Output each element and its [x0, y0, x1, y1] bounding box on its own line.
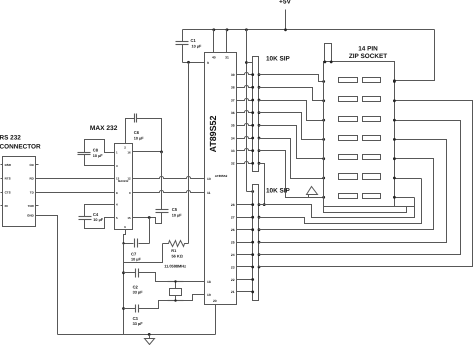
capacitor C8 loop wires pins 1-3: [85, 140, 115, 153]
svg-text:C2: C2: [133, 284, 139, 289]
svg-text:28: 28: [231, 203, 235, 207]
svg-text:25: 25: [231, 240, 235, 244]
svg-text:+5V: +5V: [279, 0, 292, 6]
svg-text:35: 35: [231, 124, 235, 128]
capacitor C5 plates: [156, 209, 169, 211]
wire C3 to crystal: [139, 301, 168, 309]
wire chip pin22 P2 to SIP2: [237, 279, 253, 281]
wire C2 to crystal: [139, 273, 168, 282]
svg-text:22: 22: [231, 278, 235, 282]
svg-text:23: 23: [231, 265, 235, 269]
svg-text:10 µF: 10 µF: [131, 258, 141, 262]
sip RN2 body: [253, 185, 259, 301]
svg-text:ZIP SOCKET: ZIP SOCKET: [349, 53, 387, 60]
svg-text:14 PIN: 14 PIN: [358, 45, 378, 52]
svg-text:10K SIP: 10K SIP: [266, 56, 291, 63]
svg-text:10 µF: 10 µF: [192, 44, 202, 48]
ic U2 MAX232 body: [115, 144, 133, 230]
svg-text:C5: C5: [172, 207, 178, 212]
wire chip pin35 P0 to SIP1: [237, 123, 253, 125]
wire SIP1 to ZIP left pin7 staircase: [259, 151, 324, 198]
svg-text:C8: C8: [93, 148, 99, 153]
wire SIP1 to ZIP left pin1 staircase: [259, 75, 324, 82]
wire pin28 step to nested line: [259, 198, 415, 218]
connector right pin stubs: [36, 164, 39, 166]
svg-text:11.0598MHz: 11.0598MHz: [164, 263, 186, 268]
node RST junction: [187, 61, 190, 64]
svg-text:26: 26: [231, 228, 235, 232]
svg-text:AT89S52: AT89S52: [208, 116, 218, 153]
node SIP2 common: [247, 191, 253, 193]
capacitor C1 plates: [176, 41, 189, 43]
node C7 left junction: [122, 242, 124, 244]
node arrow marker on pin7 wire: [308, 195, 310, 198]
wire RST vertical to R1: [188, 63, 190, 244]
zip socket lever tab: [325, 44, 332, 62]
svg-text:R1: R1: [171, 248, 177, 253]
wire chip pin21 P2 to SIP2: [237, 291, 253, 293]
svg-text:RS 232: RS 232: [0, 134, 21, 141]
wire ZIP bottom edge extension: [395, 206, 415, 208]
connector J1 RS232 body: [3, 157, 36, 227]
svg-text:33 pF: 33 pF: [133, 290, 144, 294]
wire chip pin36 P0 to SIP1: [237, 110, 253, 112]
svg-text:13: 13: [116, 177, 120, 181]
ground symbol: [148, 333, 151, 336]
wire chip pin25 P2 to SIP2: [237, 242, 253, 244]
ground rail bottom: [58, 334, 216, 336]
zip right pin1 dot: [393, 79, 396, 82]
svg-text:38: 38: [231, 86, 235, 90]
capacitor C7 plates: [134, 239, 136, 248]
svg-text:C1: C1: [191, 38, 197, 43]
wire chip pin24 P2 to SIP2: [237, 254, 253, 256]
node +5V supply stem: [285, 10, 287, 30]
svg-text:27: 27: [231, 216, 235, 220]
svg-text:24: 24: [231, 253, 235, 257]
wire chip pin38 P0 to SIP1: [237, 85, 253, 87]
wire SIP1 to ZIP left pin6 staircase: [259, 139, 324, 179]
svg-text:19: 19: [207, 293, 211, 297]
svg-text:CTS: CTS: [5, 191, 11, 195]
svg-text:DSR: DSR: [5, 163, 12, 167]
svg-text:37: 37: [231, 98, 235, 102]
sip RN1 body: [253, 57, 259, 172]
wire SIP1 to ZIP left pin5 staircase: [259, 126, 324, 159]
ic U1 AT89S52 body: [205, 53, 237, 305]
wire chip pin26 P2 to SIP2: [237, 229, 253, 231]
capacitor C8 plates: [78, 152, 91, 154]
svg-text:36: 36: [231, 111, 235, 115]
capacitor C6 plates: [134, 114, 136, 123]
svg-text:10 µF: 10 µF: [93, 154, 103, 158]
wire crystal to pin18: [184, 281, 205, 283]
svg-text:33: 33: [231, 149, 235, 153]
node C2 tap: [122, 271, 125, 274]
wire chip pin23 P2 to SIP2: [237, 266, 253, 268]
wire chip pin27 P2 to SIP2: [237, 217, 253, 219]
wire SIP1 to ZIP left pin2 staircase: [259, 88, 324, 101]
svg-text:CONNECTOR: CONNECTOR: [0, 144, 41, 151]
wire chip pin34 P0 to SIP1: [237, 136, 253, 138]
svg-text:RI: RI: [5, 204, 8, 208]
wire pin31 from rail: [226, 30, 228, 53]
wire chip pin32 P0 to SIP1: [237, 161, 253, 163]
wire ZIP right pin7 stub: [395, 197, 415, 199]
node GND junction C5/pin15: [148, 216, 151, 219]
svg-text:12: 12: [127, 177, 131, 181]
wire ZIP right pin6 stub: [395, 178, 422, 180]
svg-text:MAX 232: MAX 232: [90, 125, 118, 132]
svg-text:34: 34: [231, 136, 235, 140]
svg-text:9: 9: [207, 61, 209, 65]
capacitor C4 loop wires pins 4-5: [85, 205, 115, 217]
resistor R1 56K zigzag: [163, 241, 189, 247]
svg-text:AT89S52: AT89S52: [215, 174, 228, 178]
svg-text:16: 16: [127, 151, 131, 155]
wire rail to ZIP pin1 right: [395, 30, 435, 81]
wire MAX pin6 down to C7: [124, 230, 134, 244]
svg-text:C4: C4: [93, 212, 99, 217]
svg-text:C6: C6: [134, 130, 140, 135]
svg-text:21: 21: [231, 290, 235, 294]
svg-text:10 µF: 10 µF: [93, 218, 103, 222]
wire pin26 nested line to ZIP right pin5: [259, 159, 434, 230]
wire pin40 from rail: [213, 30, 215, 53]
capacitor C2 plates: [124, 272, 136, 274]
wire MAX232 to chip pin11 TXD: [133, 190, 205, 192]
zip socket X1 body: [324, 62, 395, 207]
wire ground vertical C2 C3: [123, 244, 125, 335]
svg-text:56 KΩ: 56 KΩ: [172, 254, 183, 259]
wire connector GND down to ground rail: [39, 216, 58, 335]
svg-text:15: 15: [127, 216, 131, 220]
svg-text:39: 39: [231, 73, 235, 77]
wire +5V bus to SIP commons: [246, 30, 248, 192]
zip right pin dots: [393, 80, 396, 83]
svg-text:33 pF: 33 pF: [133, 322, 144, 326]
wire GND node down to C7 wire: [149, 218, 151, 244]
wire MAX232 to chip pin10 RXD: [133, 176, 205, 178]
wire +5V top rail: [183, 29, 435, 31]
wire MAX pin15 to GND node: [133, 217, 150, 219]
svg-text:C3: C3: [133, 316, 139, 321]
crystal Y1 11.0598MHz: [168, 281, 184, 283]
wire SIP1 to ZIP left pin3 staircase: [259, 101, 324, 121]
node SIP1 common: [245, 61, 248, 64]
zip socket pin slots: [339, 78, 358, 83]
connector left pin stubs: [1, 164, 3, 166]
wire TD to MAX232: [39, 192, 115, 194]
wire pin27 step to nested line: [259, 179, 422, 224]
wire C5 bottom jog to GND node: [150, 213, 162, 224]
svg-text:18: 18: [207, 280, 211, 284]
wire SIP1 to ZIP left pin4 staircase: [259, 113, 324, 140]
svg-text:RTS: RTS: [5, 177, 11, 181]
svg-text:20: 20: [213, 299, 217, 303]
wire chip pin28 P2 to SIP2: [237, 204, 253, 206]
wire pin25 nested line to ZIP right pin4: [259, 140, 447, 243]
wire pin20 GND drop: [215, 305, 217, 335]
junction dots on rail: [212, 28, 215, 31]
wire P0 row8 down to pin28 net: [259, 164, 265, 205]
svg-text:31: 31: [225, 56, 229, 60]
svg-text:10 µF: 10 µF: [134, 136, 144, 140]
capacitor C6 loop pin2 to pin16: [126, 119, 135, 144]
wire chip pin39 P0 to SIP1: [237, 72, 253, 74]
wire pin16 branch down to C5: [161, 152, 163, 210]
wire ZIP left pin7 underpass: [324, 207, 407, 213]
node C3 tap: [122, 307, 125, 310]
svg-text:10: 10: [207, 177, 211, 181]
wire rail left drop to pin9: [182, 30, 184, 42]
capacitor C3 plates: [124, 308, 136, 310]
svg-text:32: 32: [231, 162, 235, 166]
wire RD to MAX232: [39, 178, 115, 180]
wire pin24 nested line to ZIP right pin3: [259, 121, 461, 255]
wire pin23 nested line to ZIP right pin2: [259, 101, 473, 267]
svg-text:GND: GND: [27, 214, 35, 218]
svg-text:11: 11: [207, 191, 211, 195]
capacitor C4 plates: [79, 216, 92, 218]
svg-text:10K SIP: 10K SIP: [266, 187, 291, 194]
wire C7 to GND node: [139, 243, 150, 245]
wire R1 left leg to ground line: [124, 244, 163, 263]
svg-text:40: 40: [212, 56, 216, 60]
wire chip pin37 P0 to SIP1: [237, 98, 253, 100]
wire chip pin33 P0 to SIP1: [237, 148, 253, 150]
wire crystal to pin19: [184, 295, 205, 301]
svg-text:10 µF: 10 µF: [172, 213, 182, 217]
svg-text:TDR: TDR: [28, 204, 35, 208]
node pin16 corner: [160, 151, 163, 154]
svg-text:C7: C7: [131, 252, 137, 257]
